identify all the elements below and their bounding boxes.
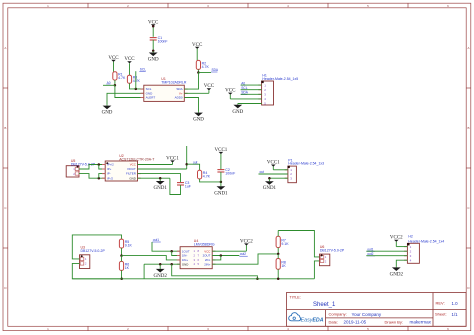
junction IP- — [98, 177, 101, 180]
wire out1 to H2 pin2 — [366, 250, 407, 252]
svg-text:Company:: Company: — [329, 312, 347, 317]
svg-text:Header-Male-2.54_1x4: Header-Male-2.54_1x4 — [408, 239, 444, 243]
svg-text:IP+: IP+ — [107, 167, 112, 171]
EasyEDA logo — [289, 313, 324, 324]
junction out — [185, 163, 188, 166]
node SCL — [139, 67, 146, 71]
svg-text:A0: A0 — [107, 81, 111, 85]
connector H1 Header-Male-2.54_1x5 — [258, 73, 298, 105]
svg-text:GND: GND — [102, 111, 113, 116]
wire VCC to H1 pin4 — [230, 98, 261, 100]
connector P1 Header-Male-2.54_1x3 — [285, 158, 325, 182]
svg-text:Date:: Date: — [329, 319, 339, 324]
svg-text:ADD0: ADD0 — [175, 96, 183, 100]
junction GND2 — [159, 263, 162, 266]
wire VCC2 to H2 pin1 — [396, 246, 407, 248]
ground GND1 (P1) — [263, 179, 277, 192]
wire 2OUT — [212, 255, 239, 257]
capacitor C1 100nF — [150, 36, 168, 44]
connector U3 DB127V-5.0-2P (screw terminal, battery) — [80, 246, 106, 269]
power flag VCC (R1) — [108, 56, 119, 72]
wire R5 to divider node — [121, 248, 123, 256]
wire U4 GND pin net — [144, 263, 180, 265]
wire U5 pin2 to IP- pins — [79, 174, 105, 179]
svg-text:makermax: makermax — [410, 320, 432, 325]
junction A0/ALERT — [114, 84, 117, 87]
resistor R8 1K — [276, 259, 286, 270]
junction rail — [256, 278, 259, 281]
node SDA (H1 pin3) — [241, 91, 249, 95]
svg-text:IP+/2: IP+/2 — [107, 163, 114, 167]
svg-text:C: C — [4, 206, 7, 210]
svg-text:DB127V-5.0-2P: DB127V-5.0-2P — [320, 249, 345, 253]
wire R4 to GND1 rail — [200, 179, 221, 182]
wire GND net to rail left — [143, 264, 145, 279]
svg-text:6: 6 — [447, 4, 449, 8]
svg-text:Sheet:: Sheet: — [435, 312, 447, 317]
node A0 (ALERT net) — [106, 81, 111, 85]
svg-text:2OUT: 2OUT — [203, 254, 211, 258]
IC U1 TMP102ADRLR (temperature sensor) — [144, 77, 187, 101]
node out2 (H2 pin3) — [367, 252, 375, 256]
wire U4 VCC pin — [212, 250, 246, 252]
svg-text:3: 3 — [207, 4, 209, 8]
svg-text:DB127V-5.0-2P: DB127V-5.0-2P — [81, 249, 106, 253]
resistor R7 9.1K — [276, 236, 289, 247]
svg-text:A: A — [4, 46, 6, 50]
junction IP+ — [98, 163, 101, 166]
wire VIOUT stub up — [186, 146, 188, 169]
svg-text:TITLE:: TITLE: — [290, 295, 301, 299]
wire VCC to V+ pin — [184, 92, 209, 94]
junction GND1 — [159, 177, 162, 180]
svg-text:IP-: IP- — [107, 172, 111, 176]
pin stubs U4 — [177, 251, 216, 264]
svg-text:2IN+: 2IN+ — [204, 262, 210, 266]
wire U5 pin1 to IP+ pins — [79, 165, 105, 170]
svg-text:SCL: SCL — [140, 67, 146, 71]
wire A0 label stub — [103, 84, 115, 86]
junction SDA — [197, 71, 200, 74]
wire out1 to 1OUT — [152, 242, 180, 251]
capacitor C3 1uF — [177, 181, 191, 189]
wire SDA label stub — [198, 72, 211, 74]
power flag VCC (U1 V+) — [204, 84, 215, 93]
svg-text:GND1: GND1 — [263, 186, 277, 191]
resistor R1 4.7K — [113, 72, 126, 80]
svg-text:100nF: 100nF — [158, 40, 168, 44]
power flag VCC1 (P1) — [267, 161, 280, 170]
wire A0 to H1 pin1 — [241, 84, 262, 86]
node SCL (H1 pin2) — [241, 86, 248, 90]
wire U3 pin1 to R5 — [72, 235, 121, 259]
wire U6 pin2 to rail — [314, 261, 319, 279]
ground GND1 (U2) — [154, 179, 168, 191]
capacitor C2 100nF — [217, 168, 235, 176]
svg-text:GND: GND — [148, 58, 159, 63]
svg-text:GND2: GND2 — [154, 274, 168, 279]
svg-text:GND2: GND2 — [390, 272, 404, 277]
pin stubs U1 — [141, 89, 188, 97]
svg-text:out2: out2 — [240, 252, 246, 256]
wire SCL label to SCL pin — [135, 71, 137, 89]
wire divider1 to 1IN+ — [122, 256, 181, 260]
svg-text:C: C — [467, 206, 470, 210]
resistor R6 1K — [119, 261, 129, 270]
wire SCL to H1 pin2 — [241, 89, 262, 91]
wire VIOUT — [138, 168, 187, 170]
power flag VCC (R3) — [124, 57, 135, 75]
wire out to R4 — [187, 164, 200, 170]
svg-text:Sheet_1: Sheet_1 — [313, 302, 336, 308]
ground GND2 (H2) — [390, 267, 404, 278]
ground GND2 (U4) — [154, 265, 168, 279]
wire IP- bridge — [99, 174, 105, 179]
wire R2 to SDA node — [197, 69, 199, 72]
wire FILTER to C3 — [138, 174, 181, 183]
svg-text:4.7K: 4.7K — [133, 79, 141, 83]
wire IP+ bridge — [99, 165, 105, 170]
wire R7 top to U6 pin1 — [278, 231, 319, 257]
resistor R4 4.7K — [198, 170, 211, 179]
svg-text:REV:: REV: — [436, 301, 445, 306]
title block — [287, 293, 467, 327]
wire C2 to GND1 — [220, 172, 222, 182]
power flag VCC1 (C2) — [215, 148, 228, 170]
ground GND (under C1) — [148, 51, 159, 62]
junction SCL — [135, 88, 138, 91]
wire VCC1 to P1 pin1 — [273, 169, 288, 171]
node out1 (H2 pin2) — [367, 247, 375, 251]
node out2 (U4) — [239, 252, 247, 256]
svg-text:ACS712ELCTR-20A-T: ACS712ELCTR-20A-T — [119, 157, 155, 161]
junction rail R6 — [120, 278, 123, 281]
wire R8 to rail — [277, 269, 279, 279]
wire 2IN+ to divider2 — [212, 254, 278, 264]
wire GND rail — [72, 278, 314, 280]
svg-text:Drawn By:: Drawn By: — [385, 319, 403, 324]
wire U2 GND pin — [138, 177, 170, 179]
power flag VCC (R2) — [192, 43, 203, 61]
wire GND to H1 pin5 — [238, 103, 262, 105]
junction C2/GND1 — [220, 181, 223, 184]
node out (P1 pin2) — [259, 170, 265, 174]
svg-text:1K: 1K — [125, 266, 130, 270]
wire R6 to rail — [121, 270, 123, 278]
node out1 — [152, 238, 160, 242]
wire R1 to node A0 — [114, 80, 116, 85]
svg-text:FILTER: FILTER — [126, 172, 136, 176]
wire R7 to divider2 — [277, 248, 279, 254]
wire A0 to ALERT pin — [115, 85, 144, 97]
svg-text:GND1: GND1 — [214, 191, 228, 196]
power flag VCC2 (U4) — [240, 239, 253, 251]
junction 1OUT feedback — [170, 250, 173, 253]
wire feedback 1OUT-1IN- — [172, 251, 180, 255]
power flag VCC2 (H2) — [390, 236, 403, 247]
svg-text:VIOUT: VIOUT — [127, 167, 136, 171]
ground GND (TMP102 left) — [102, 105, 113, 116]
power flag VCC (C1) — [148, 20, 159, 37]
connector U5 DB127V-5.0-2P (screw terminal) — [66, 159, 96, 177]
svg-text:B: B — [4, 126, 6, 130]
svg-text:GND: GND — [182, 262, 188, 266]
junction divider2 — [277, 253, 280, 256]
junction divider1 — [120, 254, 123, 257]
node SDA — [211, 68, 219, 72]
svg-text:1/1: 1/1 — [452, 312, 459, 317]
wire SDA to H1 pin3 — [241, 93, 262, 95]
junction GND2 b — [170, 263, 173, 266]
svg-text:1.0: 1.0 — [452, 301, 459, 306]
junction — [152, 50, 155, 53]
power flag VCC (H1 pin4) — [225, 89, 236, 99]
wire divider2 to R8 — [277, 254, 279, 259]
svg-text:LMV358DRG: LMV358DRG — [194, 243, 215, 247]
ground GND (ADD0) — [193, 112, 204, 123]
wire U3 pin2 to GND rail — [72, 263, 121, 278]
wire GND2 to rail — [172, 264, 258, 279]
svg-text:5: 5 — [367, 4, 369, 8]
junction 2OUT — [220, 254, 223, 257]
svg-text:Header-Male-2.54_1x5: Header-Male-2.54_1x5 — [262, 77, 298, 81]
op-amp U4 LMV358DRG (dual op-amp) — [180, 239, 215, 269]
svg-text:2019-11-05: 2019-11-05 — [344, 320, 367, 325]
wire C3 bottom to GND net — [170, 178, 181, 194]
svg-text:100nF: 100nF — [225, 172, 235, 176]
svg-text:GND: GND — [232, 110, 243, 115]
svg-text:out: out — [193, 160, 198, 164]
wire TMP102 GND pin to ground — [107, 93, 144, 105]
svg-text:IP-/2: IP-/2 — [107, 176, 113, 180]
svg-text:1K: 1K — [281, 264, 286, 268]
svg-text:GND: GND — [193, 118, 204, 123]
wire SDA to U1 SDA pin — [184, 73, 198, 90]
svg-text:A: A — [467, 46, 469, 50]
wire ADD0 to ground — [184, 98, 198, 112]
wire out to P1 pin2 — [259, 173, 288, 175]
svg-text:4.7K: 4.7K — [118, 76, 126, 80]
svg-text:GND1: GND1 — [154, 186, 168, 191]
svg-text:9.1K: 9.1K — [125, 243, 133, 247]
svg-text:2: 2 — [127, 4, 129, 8]
ground GND (H1 pin5) — [232, 104, 243, 115]
svg-text:9.1K: 9.1K — [281, 242, 289, 246]
svg-text:ALERT: ALERT — [146, 96, 156, 100]
junction rail R8 — [277, 278, 280, 281]
svg-text:4.7K: 4.7K — [202, 65, 210, 69]
svg-text:SDA: SDA — [212, 68, 219, 72]
wire out2 to H2 pin3 — [366, 255, 407, 257]
wire C1 to GND — [152, 40, 154, 51]
svg-text:Your Company: Your Company — [352, 312, 382, 317]
connector U6 DB127V-5.0-2P (screw terminal, output) — [320, 245, 345, 266]
svg-text:D: D — [467, 286, 470, 290]
junction — [152, 25, 155, 28]
IC U2 ACS712ELCTR-20A-T (current sensor) — [105, 154, 155, 181]
wire divider to R6 — [121, 256, 123, 262]
svg-text:GND: GND — [129, 176, 135, 180]
resistor R2 4.7K — [196, 60, 209, 69]
svg-text:1uF: 1uF — [185, 185, 191, 189]
wire rail2 to R7 — [277, 231, 279, 237]
svg-text:out: out — [260, 170, 265, 174]
svg-text:1IN-: 1IN- — [182, 254, 187, 258]
connector H2 Header-Male-2.54_1x4 — [404, 234, 444, 263]
svg-text:B: B — [467, 126, 469, 130]
pin stubs U2 — [102, 165, 141, 179]
svg-text:D: D — [4, 286, 7, 290]
resistor R3 4.7K — [127, 75, 140, 83]
power flag VCC1 (U2) — [166, 156, 179, 164]
node A0 (H1 pin1) — [241, 81, 246, 85]
svg-text:Header-Male-2.54_1x3: Header-Male-2.54_1x3 — [288, 162, 324, 166]
wire GND1 to P1 pin3 — [269, 177, 288, 179]
svg-text:H2: H2 — [408, 234, 413, 238]
resistor R5 9.1K — [119, 239, 132, 248]
node out (VIOUT) — [193, 160, 199, 164]
svg-text:EasyEDA: EasyEDA — [301, 318, 324, 324]
junction GND1 P1 — [268, 177, 271, 180]
wire feedback 2OUT-2IN- — [212, 256, 221, 260]
wire H2 pin4 to GND2 — [396, 260, 407, 267]
svg-text:1: 1 — [47, 4, 49, 8]
svg-text:out1: out1 — [153, 238, 159, 242]
svg-text:4: 4 — [287, 4, 289, 8]
wire R3 to SCL pin — [130, 83, 144, 89]
svg-text:TMP102ADRLR: TMP102ADRLR — [161, 80, 187, 84]
svg-text:4.7K: 4.7K — [203, 175, 211, 179]
ground GND1 (C2) — [214, 182, 228, 196]
svg-text:VCC: VCC — [130, 163, 136, 167]
wire U2 VCC pin to VCC1 — [138, 164, 173, 166]
